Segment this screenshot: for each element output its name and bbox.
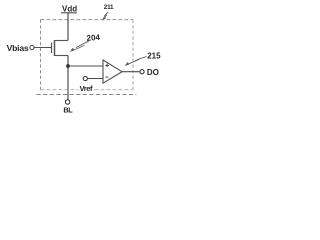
terminal DO (140, 68, 159, 77)
dashed box 211 top edge (41, 19, 134, 21)
leader arrow for 204 (70, 41, 89, 52)
dashed box 211 left edge (40, 20, 42, 90)
dashed array boundary line (37, 94, 137, 96)
node junction (66, 64, 70, 68)
dashed box 211 right edge (132, 20, 134, 90)
transistor 204 (52, 40, 69, 56)
wire gate lead (34, 47, 51, 49)
svg-text:BL: BL (63, 106, 73, 115)
dashed box 211 bottom edge (41, 89, 134, 91)
terminal Vref (79, 76, 93, 93)
svg-text:211: 211 (104, 4, 114, 11)
wire comparator output to DO (122, 71, 140, 73)
terminal BL (63, 100, 73, 115)
comparator 215 (103, 60, 122, 83)
wire Vref to comparator minus input (88, 78, 104, 80)
leader arrow for 211 (103, 12, 109, 20)
svg-text:Vbias: Vbias (7, 43, 29, 53)
svg-text:215: 215 (147, 51, 161, 60)
wire source down to junction and BL (67, 56, 69, 100)
svg-text:Vref: Vref (80, 84, 93, 93)
power rail Vdd (61, 5, 77, 14)
svg-text:DO: DO (147, 68, 159, 77)
terminal Vbias (7, 43, 34, 53)
leader arrow for 215 (125, 57, 146, 66)
wire Vdd to transistor drain (67, 13, 69, 41)
wire junction to comparator plus input (68, 65, 103, 67)
